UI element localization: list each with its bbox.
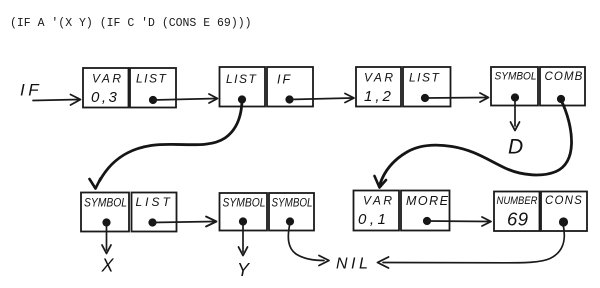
wire cell2 to cell3 [290,98,353,100]
pointer dot cell4 car [511,93,519,101]
cell pair 5 car SYMBOL [81,193,129,232]
svg-text:69: 69 [507,209,529,230]
cell pair 8 car NUMBER 69 [494,192,540,232]
svg-text:NUMBER: NUMBER [497,195,538,207]
svg-text:SYMBOL: SYMBOL [223,196,266,210]
pointer dot cell2 cdr [285,95,293,103]
svg-text:1,2: 1,2 [364,88,394,105]
svg-text:COMB: COMB [545,71,584,83]
svg-text:0,1: 0,1 [358,211,389,228]
cell pair 2 cdr IF [267,67,313,107]
svg-text:SYMBOL: SYMBOL [272,196,313,210]
wire cell5 to cell6 [153,222,215,223]
wire cell7 to cell8 [427,220,489,223]
pointer dot cell4 cdr [557,95,565,103]
wire SYMBOL to D [514,100,516,126]
svg-text:VAR: VAR [92,72,124,86]
pointer dot cell3 cdr [421,94,429,102]
wire X arrow [106,224,108,250]
wire CONS to NIL [383,224,564,263]
wire cell1 to cell2 [153,99,216,101]
pointer dot cell8 cdr [559,217,568,226]
cell pair 1 car VAR 0,3 [83,68,129,108]
pointer dot cell5 car [102,218,110,226]
svg-text:LIST: LIST [136,72,168,86]
svg-text:0,3: 0,3 [91,89,119,106]
svg-text:SYMBOL: SYMBOL [84,196,127,210]
svg-text:MORE: MORE [406,194,450,208]
wire Y arrow [242,223,244,252]
cell pair 5 cdr LIST [132,193,177,232]
cell pair 4 car SYMBOL [491,67,538,106]
svg-text:X: X [101,256,115,276]
pointer dot cell7 cdr [423,217,431,225]
cell pair 3 car VAR 1,2 [356,67,401,107]
wire IF arrow [33,100,79,101]
cell pair 7 cdr MORE [401,191,450,231]
svg-text:VAR: VAR [363,194,395,208]
svg-text:VAR: VAR [364,71,396,85]
wire COMB big curve to VAR 0,1 [380,100,572,184]
wire LIST(2) curve down to SYMBOL/LIST pair [100,101,243,181]
pointer dot cell6 cdr [286,217,294,225]
cell pair 8 cdr CONS [541,192,587,232]
wire cell3 to cell4 [425,97,486,100]
cell pair 2 car LIST [220,67,266,107]
svg-text:SYMBOL: SYMBOL [495,71,537,83]
wire SYMBOL(6cdr) to NIL [288,223,324,261]
svg-text:LIST: LIST [226,72,258,86]
cell pair 7 car VAR 0,1 [354,191,400,231]
pointer dot cell2 car [238,95,246,103]
cell pair 6 cdr SYMBOL [269,193,314,231]
svg-text:IF: IF [20,81,42,100]
cell pair 1 cdr LIST [130,68,176,108]
pointer dot cell5 cdr [148,218,156,226]
svg-text:LIST: LIST [136,195,173,209]
cell pair 4 cdr COMB [540,67,585,106]
svg-text:IF: IF [277,73,292,87]
pointer dot cell6 car [239,217,247,225]
svg-text:Y: Y [237,260,251,280]
svg-text:NIL: NIL [336,256,371,273]
pointer dot 1 [149,96,157,104]
svg-text:(IF A '(X Y) (IF C 'D (CONS E: (IF A '(X Y) (IF C 'D (CONS E 69))) [10,17,252,30]
svg-text:LIST: LIST [409,71,441,85]
svg-text:D: D [508,136,523,159]
cell pair 6 car SYMBOL [220,193,268,231]
svg-text:CONS: CONS [545,195,583,207]
cell pair 3 cdr LIST [403,67,451,107]
